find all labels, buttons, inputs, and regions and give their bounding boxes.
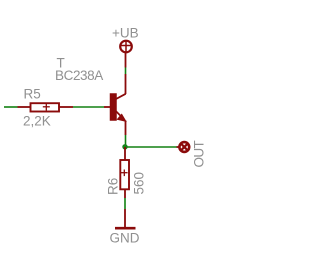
svg-text:R5: R5 (24, 87, 41, 102)
label OUT (192, 140, 207, 167)
wire junction to OUT (125, 146, 177, 148)
label +UB (112, 26, 139, 41)
svg-text:+UB: +UB (112, 26, 139, 41)
svg-text:OUT: OUT (192, 140, 207, 167)
svg-text:R6: R6 (106, 178, 121, 195)
wire R6 to GND (124, 198, 126, 209)
label R5 (24, 87, 41, 102)
resistor R6 (120, 160, 129, 198)
wire input stub (4, 106, 18, 108)
resistor R5 (18, 103, 74, 111)
label BC238A (55, 68, 103, 83)
svg-text:GND: GND (110, 231, 140, 246)
pin lead junction to R6 (124, 147, 126, 160)
label T (57, 56, 65, 71)
wire supply to collector (125, 68, 127, 75)
supply pin +UB (120, 41, 132, 68)
svg-text:BC238A: BC238A (55, 68, 103, 83)
transistor T BC238A (104, 74, 126, 135)
wire emitter net (125, 135, 127, 147)
wire base net (73, 106, 104, 108)
pin OUT (177, 142, 190, 152)
svg-text:560: 560 (132, 172, 147, 195)
ground GND (115, 209, 136, 228)
label GND (110, 231, 140, 246)
value 560 (132, 172, 147, 195)
value 2,2K (23, 114, 51, 129)
node emitter junction (122, 144, 127, 149)
label R6 (106, 178, 121, 195)
svg-text:2,2K: 2,2K (23, 114, 51, 129)
